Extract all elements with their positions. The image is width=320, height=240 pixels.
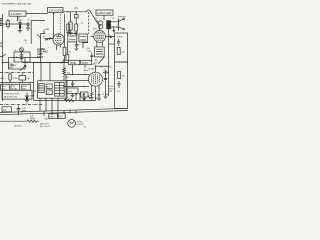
arrow down: [113, 27, 115, 33]
svg-text:SPKR: SPKR: [117, 37, 123, 39]
wire bus mid: [3, 62, 69, 64]
control box VOL: [1, 84, 10, 90]
coil hump: [86, 10, 91, 12]
svg-text:40MF: 40MF: [30, 96, 36, 98]
IF transformer box: [95, 47, 105, 57]
tube V2: [91, 26, 106, 47]
resistor R1 155 OHM: [17, 18, 22, 29]
text row AVC: [1, 77, 31, 80]
capacitor C13: [104, 78, 109, 94]
right enclosure upper box: [115, 33, 128, 62]
variable arrow: [61, 60, 65, 64]
label box "AUDIO AMP": [96, 10, 113, 15]
capacitor C5: [75, 42, 78, 48]
box first audio coupling: [9, 58, 26, 70]
svg-text:6.3: 6.3: [47, 93, 50, 95]
AVC box: [2, 107, 11, 112]
capacitor C3: [74, 12, 78, 24]
resistor R7 in box: [117, 48, 125, 55]
control box SW: [22, 84, 31, 90]
ground: [90, 98, 94, 100]
svg-text:TR: TR: [112, 18, 115, 20]
resistor R5 diagonal: [46, 38, 53, 41]
wire from det box down: [17, 16, 19, 21]
ground: [66, 33, 70, 35]
svg-text:.01: .01: [25, 66, 29, 68]
junction dots mid: [84, 42, 88, 43]
capacitor C7 in box: [117, 37, 123, 46]
svg-text:30: 30: [75, 6, 79, 10]
phone jack: [118, 18, 124, 30]
rect box 6X4: [49, 114, 58, 119]
svg-text:.01: .01: [81, 22, 84, 24]
resistor R10 horizontal: [27, 120, 39, 122]
resistor R12 vertical: [66, 42, 69, 60]
resistor R4: [75, 24, 78, 33]
wire: [82, 42, 88, 48]
wire plate to bus: [96, 65, 109, 67]
shield box: [14, 52, 30, 62]
tube V3 output: [89, 66, 103, 100]
IF can box 2: [79, 34, 87, 42]
ground: [104, 96, 108, 98]
resistor R8 vertical: [63, 63, 66, 81]
svg-text:A-M: A-M: [1, 77, 5, 80]
ground: [97, 98, 101, 100]
svg-text:AUDIO AMP: AUDIO AMP: [97, 11, 112, 15]
svg-text:P.U.: P.U.: [117, 91, 121, 93]
cathode resistor marks: [91, 92, 101, 98]
resistor R3: [67, 24, 70, 32]
text under IF box: [95, 59, 99, 63]
svg-text:B+: B+: [96, 18, 99, 20]
svg-text:117: 117: [47, 87, 50, 89]
text 2A: [30, 114, 36, 120]
resistor R11 vertical: [9, 73, 12, 83]
svg-text:47K: 47K: [108, 67, 112, 69]
svg-text:.047: .047: [68, 91, 73, 93]
junction dots: [9, 82, 31, 84]
wire drop to transformer: [41, 63, 50, 81]
ground: [71, 93, 75, 97]
resistor R9 horizontal: [64, 99, 74, 101]
tone label box CONT: [81, 60, 92, 65]
wire diagonal to tube: [91, 12, 100, 26]
capacitor C10: [80, 92, 88, 97]
tube label text block 6AV6: [37, 48, 48, 59]
wire: [96, 15, 118, 27]
svg-text:.05: .05: [77, 44, 81, 46]
svg-text:OHM: OHM: [17, 20, 22, 22]
label box "1ST AUDIO": [48, 8, 64, 13]
ground: [25, 101, 29, 103]
shield corner: [31, 21, 45, 44]
wire: [0, 120, 27, 122]
wire tone drops: [73, 65, 86, 75]
svg-text:470: 470: [122, 76, 126, 78]
dash-dot shield line: [0, 72, 33, 74]
capacitor C9 .047: [67, 88, 78, 93]
bus arrow tick: [0, 54, 6, 56]
svg-text:MO: MO: [93, 64, 97, 66]
resistor R6 vertical: [63, 14, 66, 63]
left edge marks: [0, 43, 3, 46]
wire: [0, 82, 34, 84]
frame double line: [0, 108, 128, 114]
svg-text:PHONES: PHONES: [118, 16, 127, 18]
ground: [18, 29, 22, 33]
capacitor C8 on bus: [103, 70, 108, 73]
svg-text:.02: .02: [103, 70, 107, 72]
svg-text:K: K: [25, 43, 27, 45]
svg-text:6BJ6 SW 470: 6BJ6 SW 470: [4, 96, 18, 98]
right enclosure lower box: [115, 62, 128, 108]
wire grid: [44, 38, 53, 40]
svg-text:1 ME: 1 ME: [13, 78, 18, 80]
svg-text:6X4: 6X4: [59, 116, 64, 118]
output transformer core: [106, 20, 111, 29]
wire cathode bypass: [105, 70, 107, 96]
svg-text:6BQ5: 6BQ5: [30, 118, 36, 120]
pin drops: [75, 93, 84, 100]
svg-text:45: 45: [43, 36, 46, 38]
wire vertical left of caps: [65, 74, 67, 100]
rectifier drops: [44, 110, 76, 116]
svg-text:A.C. 60 CY: A.C. 60 CY: [40, 125, 51, 128]
svg-text:(A) R-19: (A) R-19: [14, 125, 22, 128]
svg-text:4 AB: 4 AB: [45, 28, 50, 31]
arrow tick: [110, 34, 112, 38]
svg-text:B+: B+: [101, 67, 104, 69]
capacitor C12: [19, 73, 26, 83]
svg-text:51: 51: [84, 126, 86, 128]
svg-text:CONT: CONT: [82, 62, 89, 65]
wire: [25, 57, 41, 59]
transformer lead drops: [40, 98, 58, 111]
wire tube plate right: [106, 35, 115, 37]
vertical bus right: [107, 26, 109, 96]
svg-text:AC: AC: [34, 90, 37, 93]
dashed stage separator: [88, 12, 90, 34]
capacitor C14 bars: [71, 80, 74, 86]
ground: [74, 48, 78, 50]
svg-text:.01: .01: [102, 94, 105, 96]
svg-text:AVC: AVC: [3, 109, 8, 112]
ground: [82, 97, 86, 101]
text TO AC: [77, 120, 87, 128]
wire grid left: [66, 79, 89, 81]
capacitor C11 40MF: [17, 106, 28, 115]
wire: [66, 73, 89, 75]
resistor R2 vertical euro: [69, 12, 72, 32]
text 470K block: [109, 86, 116, 93]
svg-text:150: 150: [109, 91, 113, 93]
svg-text:A-M DET: A-M DET: [11, 12, 22, 16]
svg-text:6CM6: 6CM6: [89, 68, 96, 70]
dashed shield partition: [60, 14, 62, 33]
text in box: [4, 93, 20, 98]
pot arrow: [20, 66, 26, 71]
wire bus above transformer: [33, 62, 69, 64]
pot wiper: [20, 48, 24, 52]
ground: [68, 32, 72, 34]
antenna terminal: [0, 19, 3, 26]
capacitor C2 .05: [27, 19, 31, 27]
electrolytic cap 40MF: [25, 93, 35, 100]
diagonal wire: [98, 57, 104, 64]
power transformer box: [38, 81, 68, 98]
wire into box: [108, 43, 114, 45]
junction dots: [2, 11, 109, 115]
resistor R0 vertical: [7, 19, 10, 28]
svg-text:STROMBERG-CARLSON 1500: STROMBERG-CARLSON 1500: [2, 3, 32, 6]
chassis box lower left: [2, 90, 32, 99]
control box TONE: [11, 84, 20, 90]
wire top bus: [26, 12, 86, 14]
wire: [64, 85, 89, 87]
ground: [26, 28, 30, 30]
svg-text:15K: 15K: [121, 52, 125, 54]
tube V1 triode: [53, 34, 64, 45]
svg-text:10K: 10K: [26, 78, 30, 80]
dash-dot chassis line bottom: [0, 104, 42, 106]
tube pins: [57, 44, 61, 50]
wire: [3, 23, 31, 25]
components lower box: [117, 72, 126, 94]
svg-text:TONE: TONE: [70, 62, 77, 65]
pilot circle: [68, 120, 76, 128]
ground: [74, 33, 78, 35]
diagonal tick: [37, 34, 41, 38]
label box "A-M DET": [9, 11, 26, 16]
svg-text:RECT: RECT: [50, 117, 56, 119]
wire: [41, 30, 46, 63]
arrow: [88, 95, 90, 99]
svg-text:SW: SW: [45, 119, 48, 121]
wire bottom bus: [34, 99, 96, 101]
text 4.7 MEG: [84, 68, 89, 72]
output transformer coil: [99, 21, 103, 29]
capacitor C6: [90, 53, 93, 61]
box: [58, 113, 65, 119]
svg-text:1ST AUDIO: 1ST AUDIO: [49, 8, 63, 12]
IF can box: [68, 34, 77, 42]
svg-text:PUSH BUTTON: PUSH BUTTON: [4, 93, 20, 95]
wire left bus: [2, 14, 4, 101]
wire: [33, 63, 35, 101]
tone label box TONE: [69, 60, 80, 65]
text 117V: [40, 122, 51, 128]
capacitor C4 20: [14, 50, 17, 52]
text 250K: [87, 48, 91, 52]
svg-text:.05: .05: [27, 19, 31, 21]
svg-text:6T8: 6T8: [93, 29, 98, 31]
text VOL cluster: [8, 64, 28, 69]
wire vertical into audio box: [53, 14, 55, 39]
